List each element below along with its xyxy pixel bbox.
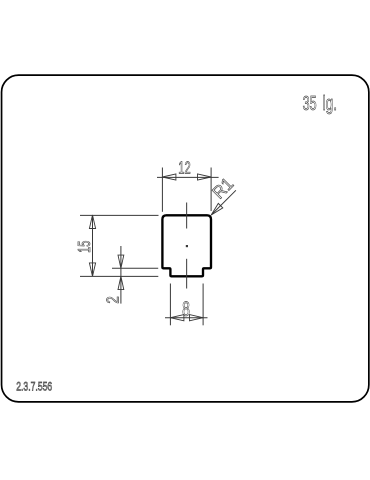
dimension 8: dimension line — [165, 317, 208, 319]
border frame — [2, 75, 369, 402]
dimension 2: dimension line — [120, 246, 122, 304]
dimension 2: upper arrow — [118, 255, 124, 268]
centerline vertical — [186, 203, 188, 289]
dimension 2: step extension line — [112, 267, 158, 269]
svg-text:2: 2 — [102, 296, 122, 303]
svg-text:12: 12 — [178, 157, 190, 177]
svg-text:8: 8 — [182, 298, 190, 321]
dimension R1: leader line — [211, 190, 236, 215]
part outline — [162, 215, 211, 276]
svg-text:2.3.7.556: 2.3.7.556 — [16, 380, 52, 394]
dimension 15: bottom arrow — [89, 263, 95, 277]
svg-text:lg.: lg. — [323, 93, 337, 115]
dimension 12: extension lines — [157, 168, 219, 212]
svg-text:15: 15 — [74, 241, 94, 253]
dimension 8: left arrow — [170, 315, 184, 321]
dimension 15: dimension line — [92, 215, 94, 276]
dimension 8: right arrow — [190, 315, 204, 321]
dimension 8: extension lines — [165, 284, 208, 326]
dimension 2: lower arrow — [118, 276, 124, 289]
dimension 12: dimension line — [157, 176, 219, 178]
dimension 12: left arrow — [162, 174, 176, 180]
dimension 15: top arrow — [89, 215, 95, 229]
dimension R1: arrow — [211, 203, 223, 215]
svg-text:35: 35 — [303, 93, 317, 115]
dimension 12: right arrow — [198, 174, 212, 180]
dimension 15: extension lines — [80, 215, 159, 276]
